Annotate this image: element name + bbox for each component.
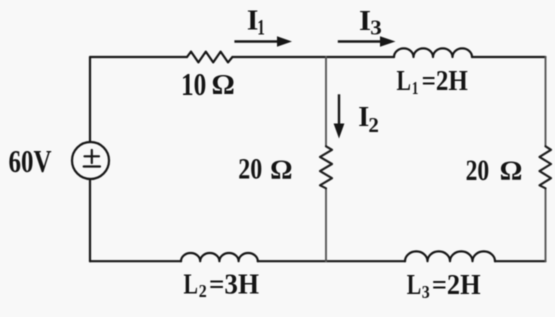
svg-text:20: 20 — [466, 154, 490, 187]
wire bottom-right horizontal — [495, 260, 546, 262]
wire top-middle horizontal — [232, 56, 394, 58]
label I3 — [359, 6, 382, 39]
svg-text:3: 3 — [370, 15, 382, 39]
label L2=3H — [184, 270, 260, 302]
wire bottom-left horizontal — [90, 260, 181, 262]
current arrow I2 — [334, 94, 345, 138]
voltage source polarity mark — [84, 150, 100, 167]
svg-text:60V: 60V — [9, 144, 52, 179]
label I1 — [247, 5, 265, 39]
wire bottom-middle horizontal — [258, 260, 405, 262]
resistor R3 20ohm right zigzag — [540, 146, 552, 188]
svg-text:L: L — [397, 66, 412, 97]
wire left vertical lower — [89, 179, 91, 261]
inductor L3 coil — [405, 251, 495, 261]
svg-text:3: 3 — [422, 282, 430, 302]
wire right vertical upper — [545, 57, 547, 146]
resistor R2 20ohm middle zigzag — [320, 146, 332, 188]
svg-text:I: I — [359, 6, 371, 37]
label 10ohm — [181, 67, 235, 102]
svg-text:Ω: Ω — [500, 155, 523, 186]
wire left vertical upper — [89, 57, 91, 142]
wire middle vertical upper — [325, 57, 327, 146]
voltage source V1 circle — [72, 142, 109, 179]
svg-text:10: 10 — [181, 67, 206, 102]
svg-text:Ω: Ω — [212, 70, 235, 101]
svg-text:1: 1 — [257, 15, 265, 40]
label L1=2H — [397, 66, 468, 98]
svg-text:L: L — [407, 270, 422, 301]
svg-text:L: L — [184, 270, 199, 301]
inductor L1 coil — [394, 48, 472, 57]
wire right vertical lower — [545, 188, 547, 261]
svg-text:2: 2 — [368, 113, 379, 137]
current arrow I1 — [234, 36, 292, 47]
svg-text:=2H: =2H — [422, 66, 468, 97]
resistor R1 10ohm zigzag — [187, 52, 232, 63]
svg-text:=3H: =3H — [209, 270, 259, 301]
label 20ohm right — [466, 154, 523, 187]
label L3=2H — [407, 270, 481, 302]
svg-text:=2H: =2H — [432, 270, 481, 301]
label 20ohm middle — [238, 153, 292, 186]
inductor L2 coil — [181, 253, 258, 261]
wire top-right horizontal — [472, 56, 546, 58]
svg-text:1: 1 — [412, 78, 419, 98]
svg-text:20: 20 — [238, 153, 262, 186]
svg-text:Ω: Ω — [270, 153, 292, 184]
label I2 — [358, 102, 379, 137]
current arrow I3 — [338, 36, 396, 47]
wire top-left horizontal — [90, 56, 187, 58]
svg-text:2: 2 — [199, 281, 207, 301]
wire middle vertical lower — [325, 188, 327, 261]
